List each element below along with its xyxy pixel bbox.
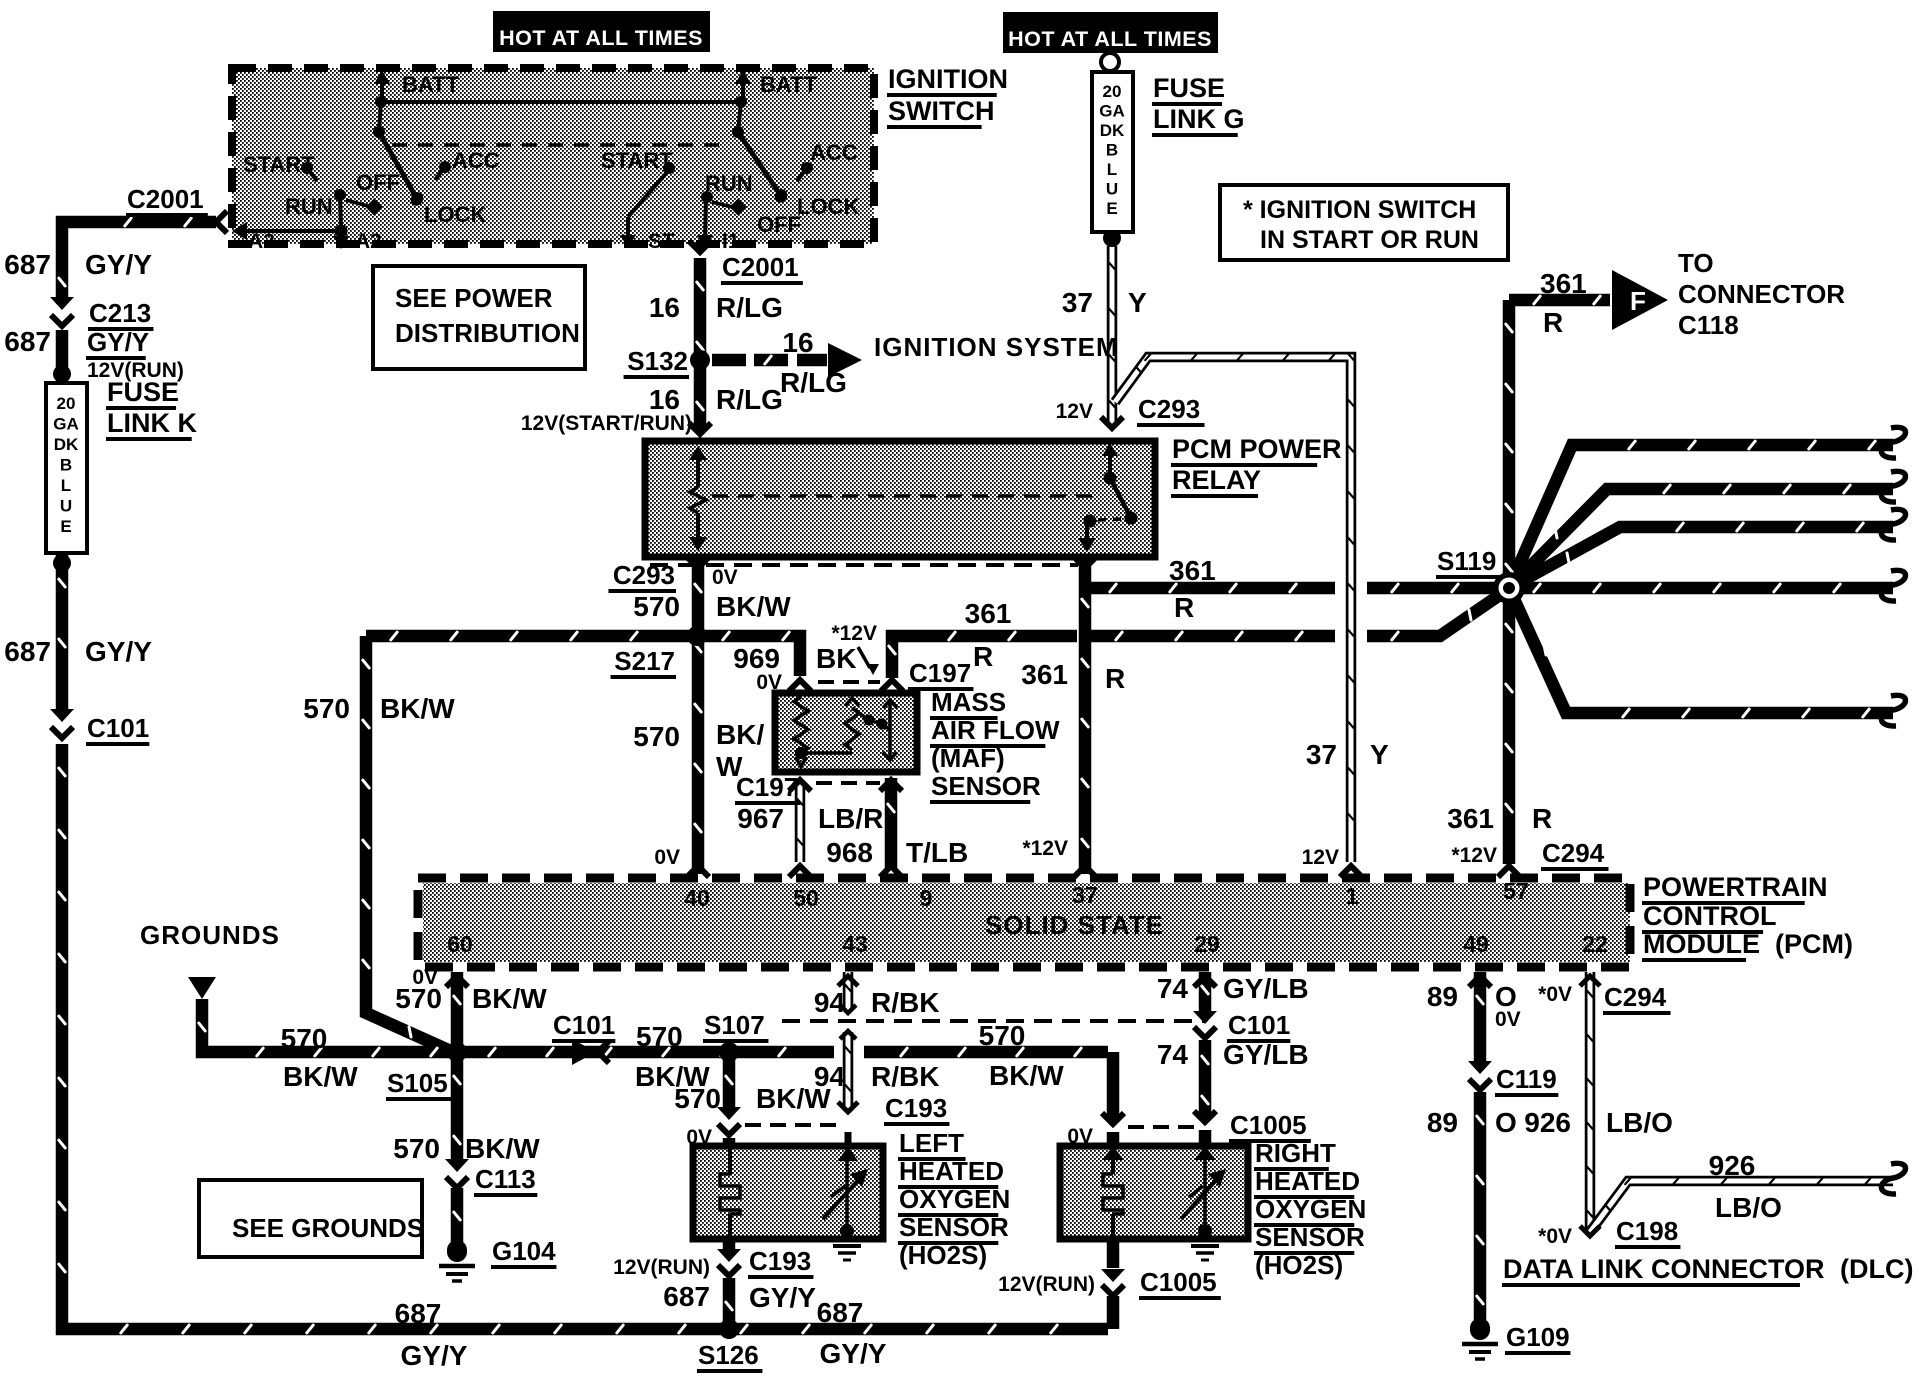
svg-text:C2001: C2001 <box>722 252 799 282</box>
svg-text:HEATED: HEATED <box>1255 1166 1360 1196</box>
svg-text:S132: S132 <box>627 346 688 376</box>
svg-text:C113: C113 <box>475 1164 536 1194</box>
svg-text:GA: GA <box>1099 102 1125 121</box>
svg-text:G104: G104 <box>492 1236 556 1266</box>
svg-text:GA: GA <box>53 415 79 434</box>
svg-text:SWITCH: SWITCH <box>888 96 994 126</box>
svg-text:94: 94 <box>814 987 846 1018</box>
svg-text:DATA LINK CONNECTOR: DATA LINK CONNECTOR <box>1503 1254 1824 1284</box>
svg-text:89: 89 <box>1427 981 1458 1012</box>
svg-text:0V: 0V <box>712 566 738 589</box>
svg-text:926: 926 <box>1524 1107 1571 1138</box>
svg-text:94: 94 <box>814 1061 846 1092</box>
svg-text:R: R <box>1543 307 1563 338</box>
svg-text:361: 361 <box>1169 555 1216 586</box>
svg-text:R/BK: R/BK <box>871 987 939 1018</box>
svg-text:START: START <box>601 148 673 173</box>
svg-text:HOT AT ALL TIMES: HOT AT ALL TIMES <box>499 26 703 50</box>
svg-text:R: R <box>1532 803 1552 834</box>
svg-text:361: 361 <box>1021 659 1068 690</box>
svg-text:570: 570 <box>636 1021 683 1052</box>
svg-text:C193: C193 <box>885 1093 947 1123</box>
svg-text:LB/R: LB/R <box>818 803 883 834</box>
svg-text:C101: C101 <box>87 713 149 743</box>
svg-text:74: 74 <box>1157 973 1189 1004</box>
svg-text:C1005: C1005 <box>1230 1110 1307 1140</box>
svg-text:687: 687 <box>4 326 51 357</box>
svg-text:O: O <box>1495 1107 1517 1138</box>
svg-text:*12V: *12V <box>1451 844 1497 867</box>
svg-text:LEFT: LEFT <box>899 1128 964 1158</box>
svg-text:37: 37 <box>1072 882 1098 908</box>
svg-text:BK/W: BK/W <box>283 1061 358 1092</box>
svg-text:969: 969 <box>733 643 780 674</box>
svg-text:R/LG: R/LG <box>716 292 783 323</box>
svg-text:B: B <box>60 456 72 475</box>
svg-text:570: 570 <box>674 1083 721 1114</box>
svg-text:S119: S119 <box>1437 546 1496 576</box>
svg-text:12V(RUN): 12V(RUN) <box>998 1273 1095 1296</box>
svg-text:BK/: BK/ <box>716 719 764 750</box>
svg-text:U: U <box>60 497 72 516</box>
svg-text:DK: DK <box>54 435 79 454</box>
svg-text:GY/Y: GY/Y <box>85 249 152 280</box>
svg-text:570: 570 <box>281 1023 328 1054</box>
svg-text:GROUNDS: GROUNDS <box>140 920 280 950</box>
svg-text:ACC: ACC <box>452 148 500 173</box>
svg-text:687: 687 <box>4 636 51 667</box>
svg-text:C198: C198 <box>1616 1216 1678 1246</box>
svg-text:SENSOR: SENSOR <box>1255 1222 1365 1252</box>
svg-text:OXYGEN: OXYGEN <box>899 1184 1010 1214</box>
svg-text:RELAY: RELAY <box>1172 465 1261 495</box>
svg-text:U: U <box>1106 180 1118 199</box>
svg-text:37: 37 <box>1062 287 1093 318</box>
svg-text:C197: C197 <box>909 658 971 688</box>
svg-text:L: L <box>61 476 71 495</box>
svg-text:LINK K: LINK K <box>107 408 197 438</box>
svg-text:12V: 12V <box>1056 400 1093 423</box>
svg-text:BK/W: BK/W <box>472 983 547 1014</box>
svg-text:0V: 0V <box>1495 1008 1521 1031</box>
svg-text:R: R <box>1105 663 1125 694</box>
svg-text:MASS: MASS <box>931 687 1006 717</box>
svg-text:START: START <box>243 152 315 177</box>
svg-text:361: 361 <box>1447 803 1494 834</box>
svg-text:GY/Y: GY/Y <box>749 1282 816 1313</box>
svg-text:F: F <box>1630 286 1646 316</box>
svg-text:C294: C294 <box>1542 838 1605 868</box>
svg-text:74: 74 <box>1157 1039 1189 1070</box>
svg-text:*0V: *0V <box>1538 1225 1572 1248</box>
svg-text:SENSOR: SENSOR <box>931 771 1041 801</box>
svg-text:BK: BK <box>816 643 856 674</box>
svg-text:GY/Y: GY/Y <box>87 327 149 357</box>
svg-text:L: L <box>1107 160 1117 179</box>
svg-text:SENSOR: SENSOR <box>899 1212 1009 1242</box>
svg-text:PCM POWER: PCM POWER <box>1172 434 1342 464</box>
svg-text:0V: 0V <box>686 1126 712 1149</box>
svg-text:361: 361 <box>965 598 1012 629</box>
svg-text:Y: Y <box>1370 739 1389 770</box>
svg-text:29: 29 <box>1194 931 1220 957</box>
svg-text:C119: C119 <box>1496 1064 1557 1094</box>
svg-text:DISTRIBUTION: DISTRIBUTION <box>395 318 580 348</box>
svg-text:57: 57 <box>1503 878 1529 904</box>
svg-text:570: 570 <box>633 591 680 622</box>
svg-text:C101: C101 <box>553 1010 615 1040</box>
svg-text:GY/Y: GY/Y <box>85 636 152 667</box>
svg-text:12V(RUN): 12V(RUN) <box>613 1256 710 1279</box>
svg-text:* IGNITION SWITCH: * IGNITION SWITCH <box>1243 196 1476 224</box>
svg-text:R: R <box>973 641 993 672</box>
svg-text:BATT: BATT <box>760 72 818 97</box>
svg-text:GY/Y: GY/Y <box>820 1338 887 1369</box>
svg-text:BK/W: BK/W <box>465 1133 540 1164</box>
svg-text:FUSE: FUSE <box>1153 73 1225 103</box>
svg-text:0V: 0V <box>1067 1125 1093 1148</box>
svg-text:GY/LB: GY/LB <box>1223 1039 1309 1070</box>
svg-text:0V: 0V <box>654 846 680 869</box>
svg-text:CONNECTOR: CONNECTOR <box>1678 279 1845 309</box>
svg-text:(DLC): (DLC) <box>1840 1254 1913 1284</box>
svg-text:S105: S105 <box>387 1068 448 1098</box>
svg-text:GY/LB: GY/LB <box>1223 973 1309 1004</box>
svg-text:1: 1 <box>1346 883 1359 909</box>
svg-text:HEATED: HEATED <box>899 1156 1004 1186</box>
svg-text:9: 9 <box>920 885 933 911</box>
svg-text:967: 967 <box>737 803 784 834</box>
svg-text:LB/O: LB/O <box>1715 1192 1782 1223</box>
svg-text:IN START OR RUN: IN START OR RUN <box>1260 226 1479 254</box>
svg-text:687: 687 <box>395 1298 442 1329</box>
svg-text:OFF: OFF <box>757 212 801 237</box>
svg-text:16: 16 <box>782 327 813 358</box>
svg-text:BK/W: BK/W <box>716 591 791 622</box>
svg-text:AIR FLOW: AIR FLOW <box>931 715 1060 745</box>
svg-text:CONTROL: CONTROL <box>1643 901 1776 931</box>
svg-text:BK/W: BK/W <box>380 693 455 724</box>
svg-text:SOLID STATE: SOLID STATE <box>985 910 1164 940</box>
svg-text:50: 50 <box>793 885 819 911</box>
svg-text:POWERTRAIN: POWERTRAIN <box>1643 872 1828 902</box>
svg-text:R/BK: R/BK <box>871 1061 939 1092</box>
svg-text:12V: 12V <box>1302 846 1339 869</box>
svg-text:(HO2S): (HO2S) <box>1255 1250 1343 1280</box>
svg-text:IGNITION SYSTEM: IGNITION SYSTEM <box>874 332 1119 362</box>
svg-text:GY/Y: GY/Y <box>401 1340 468 1371</box>
svg-text:S217: S217 <box>614 646 675 676</box>
svg-text:22: 22 <box>1582 931 1608 957</box>
svg-text:570: 570 <box>393 1133 440 1164</box>
svg-text:89: 89 <box>1427 1107 1458 1138</box>
svg-text:0V: 0V <box>756 671 782 694</box>
svg-text:43: 43 <box>842 931 868 957</box>
svg-text:16: 16 <box>649 384 680 415</box>
svg-text:I1: I1 <box>722 230 740 253</box>
svg-text:C293: C293 <box>1138 394 1200 424</box>
svg-text:DK: DK <box>1100 121 1125 140</box>
svg-text:361: 361 <box>1540 268 1587 299</box>
svg-text:(MAF): (MAF) <box>931 743 1005 773</box>
svg-text:LOCK: LOCK <box>797 194 859 219</box>
svg-text:ST: ST <box>648 230 675 253</box>
svg-text:T/LB: T/LB <box>906 837 968 868</box>
svg-text:687: 687 <box>4 249 51 280</box>
svg-text:S107: S107 <box>704 1010 765 1040</box>
svg-text:C118: C118 <box>1678 310 1739 340</box>
svg-text:R: R <box>1174 592 1194 623</box>
svg-text:968: 968 <box>826 837 873 868</box>
svg-text:C1005: C1005 <box>1140 1267 1217 1297</box>
svg-text:Y: Y <box>1128 287 1147 318</box>
svg-text:R/LG: R/LG <box>716 384 783 415</box>
svg-text:*12V: *12V <box>1022 837 1068 860</box>
svg-text:E: E <box>1106 199 1117 218</box>
svg-text:687: 687 <box>663 1281 710 1312</box>
svg-text:570: 570 <box>303 693 350 724</box>
svg-text:C294: C294 <box>1604 982 1667 1012</box>
svg-text:(HO2S): (HO2S) <box>899 1240 987 1270</box>
svg-text:B: B <box>1106 141 1118 160</box>
svg-text:OXYGEN: OXYGEN <box>1255 1194 1366 1224</box>
svg-text:687: 687 <box>817 1297 864 1328</box>
svg-text:LINK G: LINK G <box>1153 104 1245 134</box>
svg-text:A2: A2 <box>248 230 275 253</box>
svg-text:BATT: BATT <box>402 72 460 97</box>
svg-text:16: 16 <box>649 292 680 323</box>
svg-text:570: 570 <box>395 983 442 1014</box>
svg-text:*12V: *12V <box>831 622 877 645</box>
svg-text:G109: G109 <box>1506 1322 1570 1352</box>
svg-text:570: 570 <box>633 721 680 752</box>
svg-text:SEE POWER: SEE POWER <box>395 283 553 313</box>
svg-text:RUN: RUN <box>705 171 753 196</box>
svg-text:LB/O: LB/O <box>1606 1107 1673 1138</box>
svg-text:A2: A2 <box>355 230 382 253</box>
svg-text:570: 570 <box>979 1020 1026 1051</box>
svg-text:SEE GROUNDS: SEE GROUNDS <box>232 1213 424 1243</box>
svg-text:R/LG: R/LG <box>780 367 847 398</box>
svg-text:E: E <box>60 517 71 536</box>
svg-text:ACC: ACC <box>810 140 858 165</box>
svg-text:HOT AT ALL TIMES: HOT AT ALL TIMES <box>1008 27 1212 51</box>
svg-text:20: 20 <box>57 394 76 413</box>
svg-text:C197: C197 <box>736 772 798 802</box>
svg-text:IGNITION: IGNITION <box>888 64 1008 94</box>
svg-text:S126: S126 <box>698 1340 759 1370</box>
svg-text:MODULE: MODULE <box>1643 929 1760 959</box>
svg-text:20: 20 <box>1103 82 1122 101</box>
svg-text:37: 37 <box>1306 739 1337 770</box>
svg-text:12V(START/RUN): 12V(START/RUN) <box>521 412 692 435</box>
svg-text:LOCK: LOCK <box>424 202 486 227</box>
svg-text:(PCM): (PCM) <box>1775 929 1853 959</box>
svg-text:49: 49 <box>1463 931 1489 957</box>
svg-text:12V(RUN): 12V(RUN) <box>87 359 184 382</box>
svg-text:C213: C213 <box>89 298 151 328</box>
svg-text:926: 926 <box>1709 1150 1756 1181</box>
svg-text:TO: TO <box>1678 248 1714 278</box>
svg-text:RUN: RUN <box>285 194 333 219</box>
svg-text:*0V: *0V <box>1538 983 1572 1006</box>
svg-text:C193: C193 <box>749 1246 811 1276</box>
svg-text:C2001: C2001 <box>127 184 204 214</box>
svg-text:60: 60 <box>447 931 473 957</box>
svg-text:40: 40 <box>684 885 710 911</box>
svg-text:OFF: OFF <box>356 170 400 195</box>
svg-text:C101: C101 <box>1228 1010 1290 1040</box>
svg-text:C293: C293 <box>613 560 675 590</box>
svg-text:BK/W: BK/W <box>989 1060 1064 1091</box>
